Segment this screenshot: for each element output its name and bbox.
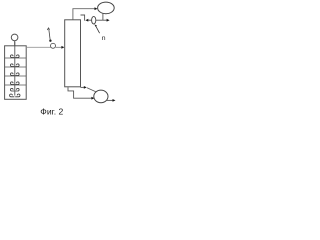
stirrer shaft bbox=[14, 42, 16, 96]
wire (connector into pump P1) bbox=[87, 88, 96, 92]
pump P1 (bottom circle) bbox=[94, 90, 108, 103]
condenser E1 (big ellipse) bbox=[98, 2, 115, 14]
wire (bottoms upper outlet from column corner) bbox=[81, 86, 84, 88]
wire (motor stem) bbox=[14, 41, 16, 46]
impeller 5 bbox=[11, 88, 20, 91]
leader arrowhead at pump n bbox=[94, 24, 97, 27]
motor M1 (drive circle on stirred vessel) bbox=[11, 34, 18, 41]
valve pivot dot bbox=[49, 40, 51, 42]
tray divider 3 bbox=[5, 75, 26, 77]
arrowhead into column (feed) bbox=[61, 46, 64, 49]
impeller 2 bbox=[11, 64, 20, 67]
column K1 bbox=[65, 20, 81, 87]
arrowhead distillate out bbox=[107, 19, 110, 22]
valve lever rod bbox=[49, 29, 50, 40]
impeller 6 (wider, at shaft end) bbox=[10, 94, 20, 97]
wire (condensate downcomer) bbox=[102, 13, 104, 20]
tray divider 4 bbox=[5, 84, 26, 86]
vessel V1 (multi-stage stirred apparatus) bbox=[5, 46, 27, 100]
wire (pump discharge) bbox=[106, 99, 113, 101]
arrowhead reflux into column stub bbox=[85, 19, 88, 22]
reflux stub into column top bbox=[81, 15, 85, 21]
wire (reflux line left of pump n) bbox=[88, 19, 91, 21]
svg-text:n: n bbox=[102, 35, 106, 42]
pump n (small ellipse) bbox=[92, 16, 96, 24]
arrowhead drain into pump P1 bbox=[91, 97, 94, 100]
svg-text:Фиг. 2: Фиг. 2 bbox=[40, 107, 63, 117]
tray divider 2 bbox=[5, 66, 26, 68]
arrowhead into condenser bbox=[95, 7, 98, 10]
wire (valve to column) bbox=[56, 46, 62, 48]
wire (reflux line right of pump n) bbox=[96, 19, 103, 21]
tray divider 1 bbox=[5, 57, 26, 59]
wire (bottoms zigzag drain) bbox=[68, 87, 92, 98]
valve body circle bbox=[51, 43, 56, 48]
impeller 1 bbox=[11, 55, 20, 58]
wire (distillate outlet) bbox=[103, 19, 107, 21]
impeller 4 bbox=[11, 82, 20, 85]
arrowhead pump discharge bbox=[113, 99, 116, 102]
impeller 3 bbox=[11, 73, 20, 76]
leader line to label n bbox=[96, 26, 100, 34]
arrowhead bottoms upper outlet bbox=[84, 86, 87, 89]
wire (vapor riser from column top) bbox=[73, 9, 95, 20]
wire (feed line vessel to valve) bbox=[26, 46, 51, 48]
valve handle caret bbox=[47, 28, 49, 30]
